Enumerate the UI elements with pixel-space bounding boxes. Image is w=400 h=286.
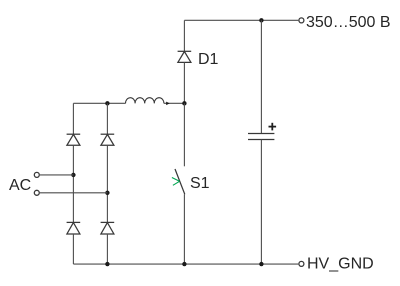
wire bridge top to inductor xyxy=(73,102,125,104)
wire switch column upper xyxy=(183,103,185,166)
wire right branch lower xyxy=(106,234,108,264)
svg-text:D1: D1 xyxy=(198,51,219,68)
terminal 350...500 B xyxy=(299,18,304,23)
wire bottom rail xyxy=(73,263,298,265)
terminal AC bottom xyxy=(34,190,39,195)
inductor L xyxy=(126,98,164,104)
wire AC bottom xyxy=(40,192,108,194)
wire left branch middle xyxy=(72,145,74,222)
wire top rail xyxy=(184,19,298,21)
wire inductor to node xyxy=(164,102,185,104)
node junction right branch bottom xyxy=(105,262,109,266)
wire D1 column upper xyxy=(183,20,185,51)
wire D1 to node xyxy=(183,62,185,103)
svg-text:S1: S1 xyxy=(190,175,210,192)
wire capacitor column lower xyxy=(260,140,262,264)
wire switch column lower xyxy=(183,194,185,264)
node junction cap top xyxy=(259,18,263,22)
node junction cap bottom xyxy=(259,262,263,266)
wire left branch lower xyxy=(72,234,74,264)
node junction switch column bottom xyxy=(182,262,186,266)
wire right branch middle xyxy=(106,145,108,222)
node junction AC top on left branch xyxy=(71,173,75,177)
terminal AC top xyxy=(34,172,39,177)
arrow on wire xyxy=(166,102,170,106)
capacitor C plates xyxy=(248,133,274,139)
svg-text:AC: AC xyxy=(9,177,31,194)
svg-text:HV_GND: HV_GND xyxy=(307,256,374,273)
switch S1 actuator arrow xyxy=(172,178,180,186)
diode D1 xyxy=(178,51,192,62)
wire AC top xyxy=(40,174,74,176)
diode bridge lower-right xyxy=(101,222,115,234)
capacitor polarity plus xyxy=(269,123,277,131)
terminal HV_GND xyxy=(299,261,304,266)
node junction right branch top xyxy=(105,101,109,105)
diode bridge upper-right xyxy=(101,134,115,145)
switch S1 blade xyxy=(175,169,185,194)
svg-text:350…500 В: 350…500 В xyxy=(306,14,391,31)
wire left branch upper xyxy=(72,103,74,134)
node junction AC bottom on right branch xyxy=(105,191,109,195)
wire capacitor column upper xyxy=(260,20,262,133)
wire right branch upper xyxy=(106,103,108,134)
diode bridge upper-left xyxy=(67,134,81,145)
node junction switch column top xyxy=(182,101,186,105)
diode bridge lower-left xyxy=(67,222,81,234)
